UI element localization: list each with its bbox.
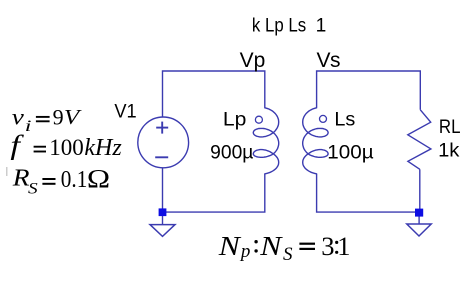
svg-text:v: v [12, 105, 25, 130]
equals sign ratio [299, 244, 315, 249]
wire right loop top rail [317, 71, 421, 110]
voltage source V1 [138, 117, 189, 168]
svg-text:kHz: kHz [84, 135, 122, 161]
stray grey mark [6, 167, 8, 176]
ground left [150, 225, 175, 237]
equals sign line2 [34, 147, 46, 152]
svg-text:1: 1 [337, 231, 350, 261]
wire left loop bottom rail [163, 174, 265, 212]
wire right loop bottom rail [317, 174, 420, 212]
svg-text:Vs: Vs [317, 49, 341, 72]
svg-text:9: 9 [53, 104, 64, 129]
wire left loop top rail [163, 71, 265, 117]
phase dot Ls [320, 115, 327, 122]
inductor Lp [253, 108, 278, 174]
wire ground stem left [162, 212, 164, 225]
ground right [407, 224, 431, 236]
svg-text:V1: V1 [114, 102, 136, 123]
svg-text:p: p [239, 241, 251, 262]
svg-text:S: S [283, 244, 293, 265]
junction node left [159, 208, 167, 216]
svg-text:i: i [25, 118, 32, 135]
svg-text:N: N [259, 232, 283, 261]
wire RL bottom leg [419, 169, 421, 212]
equals sign line1 [36, 117, 50, 121]
svg-text:N: N [218, 232, 242, 261]
svg-text:R: R [12, 164, 30, 191]
junction node right [415, 209, 423, 217]
svg-text:S: S [28, 179, 38, 197]
resistor RL [408, 110, 431, 170]
svg-text:3: 3 [321, 231, 334, 261]
svg-text:900µ: 900µ [210, 142, 253, 163]
ratio colon (3:1) [335, 241, 338, 254]
svg-text:100µ: 100µ [327, 142, 373, 163]
svg-text:Lp: Lp [223, 110, 247, 131]
equals sign line3 [42, 179, 55, 184]
ratio colon (N_p : N_S) [254, 240, 257, 253]
svg-text:f: f [10, 129, 24, 160]
wire ground stem right [418, 212, 420, 224]
svg-text:Ω: Ω [87, 164, 110, 193]
svg-text:Ls: Ls [334, 110, 355, 131]
svg-text:1k: 1k [438, 141, 460, 162]
phase dot Lp [255, 116, 262, 123]
svg-text:100: 100 [49, 135, 84, 160]
svg-text:k Lp Ls: k Lp Ls [252, 16, 306, 37]
svg-text:RL: RL [439, 117, 461, 138]
inductor Ls [303, 108, 328, 174]
svg-text:1: 1 [316, 16, 327, 37]
svg-text:V: V [64, 106, 82, 130]
svg-text:0.1: 0.1 [61, 167, 88, 193]
svg-text:Vp: Vp [240, 49, 266, 72]
wire V1 bottom leg [162, 168, 164, 212]
